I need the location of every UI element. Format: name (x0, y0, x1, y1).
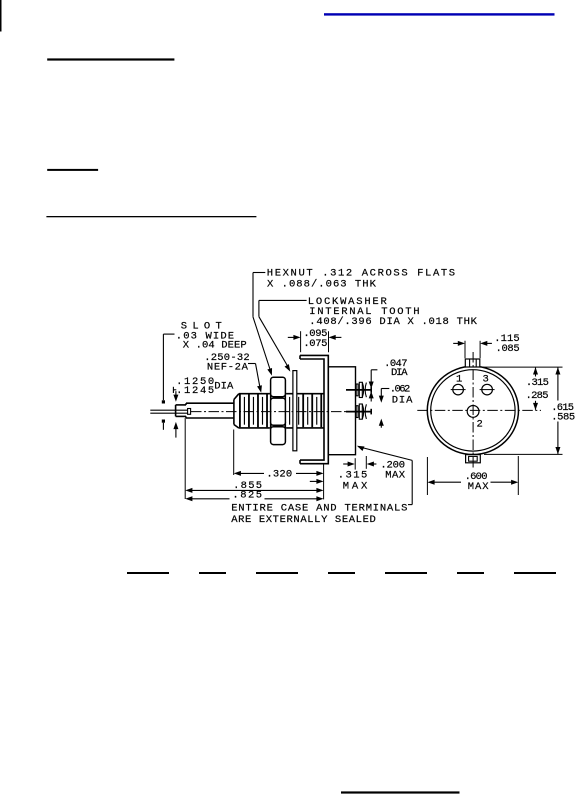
svg-text:.085: .085 (496, 343, 520, 355)
svg-text:DIA: DIA (391, 367, 408, 379)
svg-text:MAX: MAX (385, 469, 405, 481)
svg-text:X .04 DEEP: X .04 DEEP (183, 340, 247, 352)
svg-text:ENTIRE CASE AND TERMINALS: ENTIRE CASE AND TERMINALS (231, 503, 407, 515)
svg-text:NEF-2A: NEF-2A (207, 362, 249, 374)
svg-text:2: 2 (477, 419, 483, 431)
svg-text:.315: .315 (338, 469, 368, 481)
svg-text:.320: .320 (266, 468, 292, 480)
svg-text:DIA: DIA (392, 395, 413, 407)
svg-text:.075: .075 (303, 338, 327, 350)
svg-text:ARE EXTERNALLY SEALED: ARE EXTERNALLY SEALED (231, 514, 376, 526)
svg-text:.408/.396 DIA X .018 THK: .408/.396 DIA X .018 THK (309, 316, 477, 328)
svg-text:.315: .315 (526, 377, 549, 389)
svg-text:3: 3 (483, 374, 489, 386)
svg-text:DIA: DIA (214, 381, 234, 393)
svg-text:.285: .285 (526, 390, 549, 402)
svg-text:MAX: MAX (343, 481, 368, 493)
svg-text:.825: .825 (232, 489, 262, 501)
svg-text:.585: .585 (551, 412, 575, 424)
svg-text:X .088/.063 THK: X .088/.063 THK (267, 279, 377, 291)
svg-text:1: 1 (456, 374, 462, 386)
svg-text:MAX: MAX (468, 481, 489, 493)
svg-text:.1245: .1245 (176, 385, 214, 397)
